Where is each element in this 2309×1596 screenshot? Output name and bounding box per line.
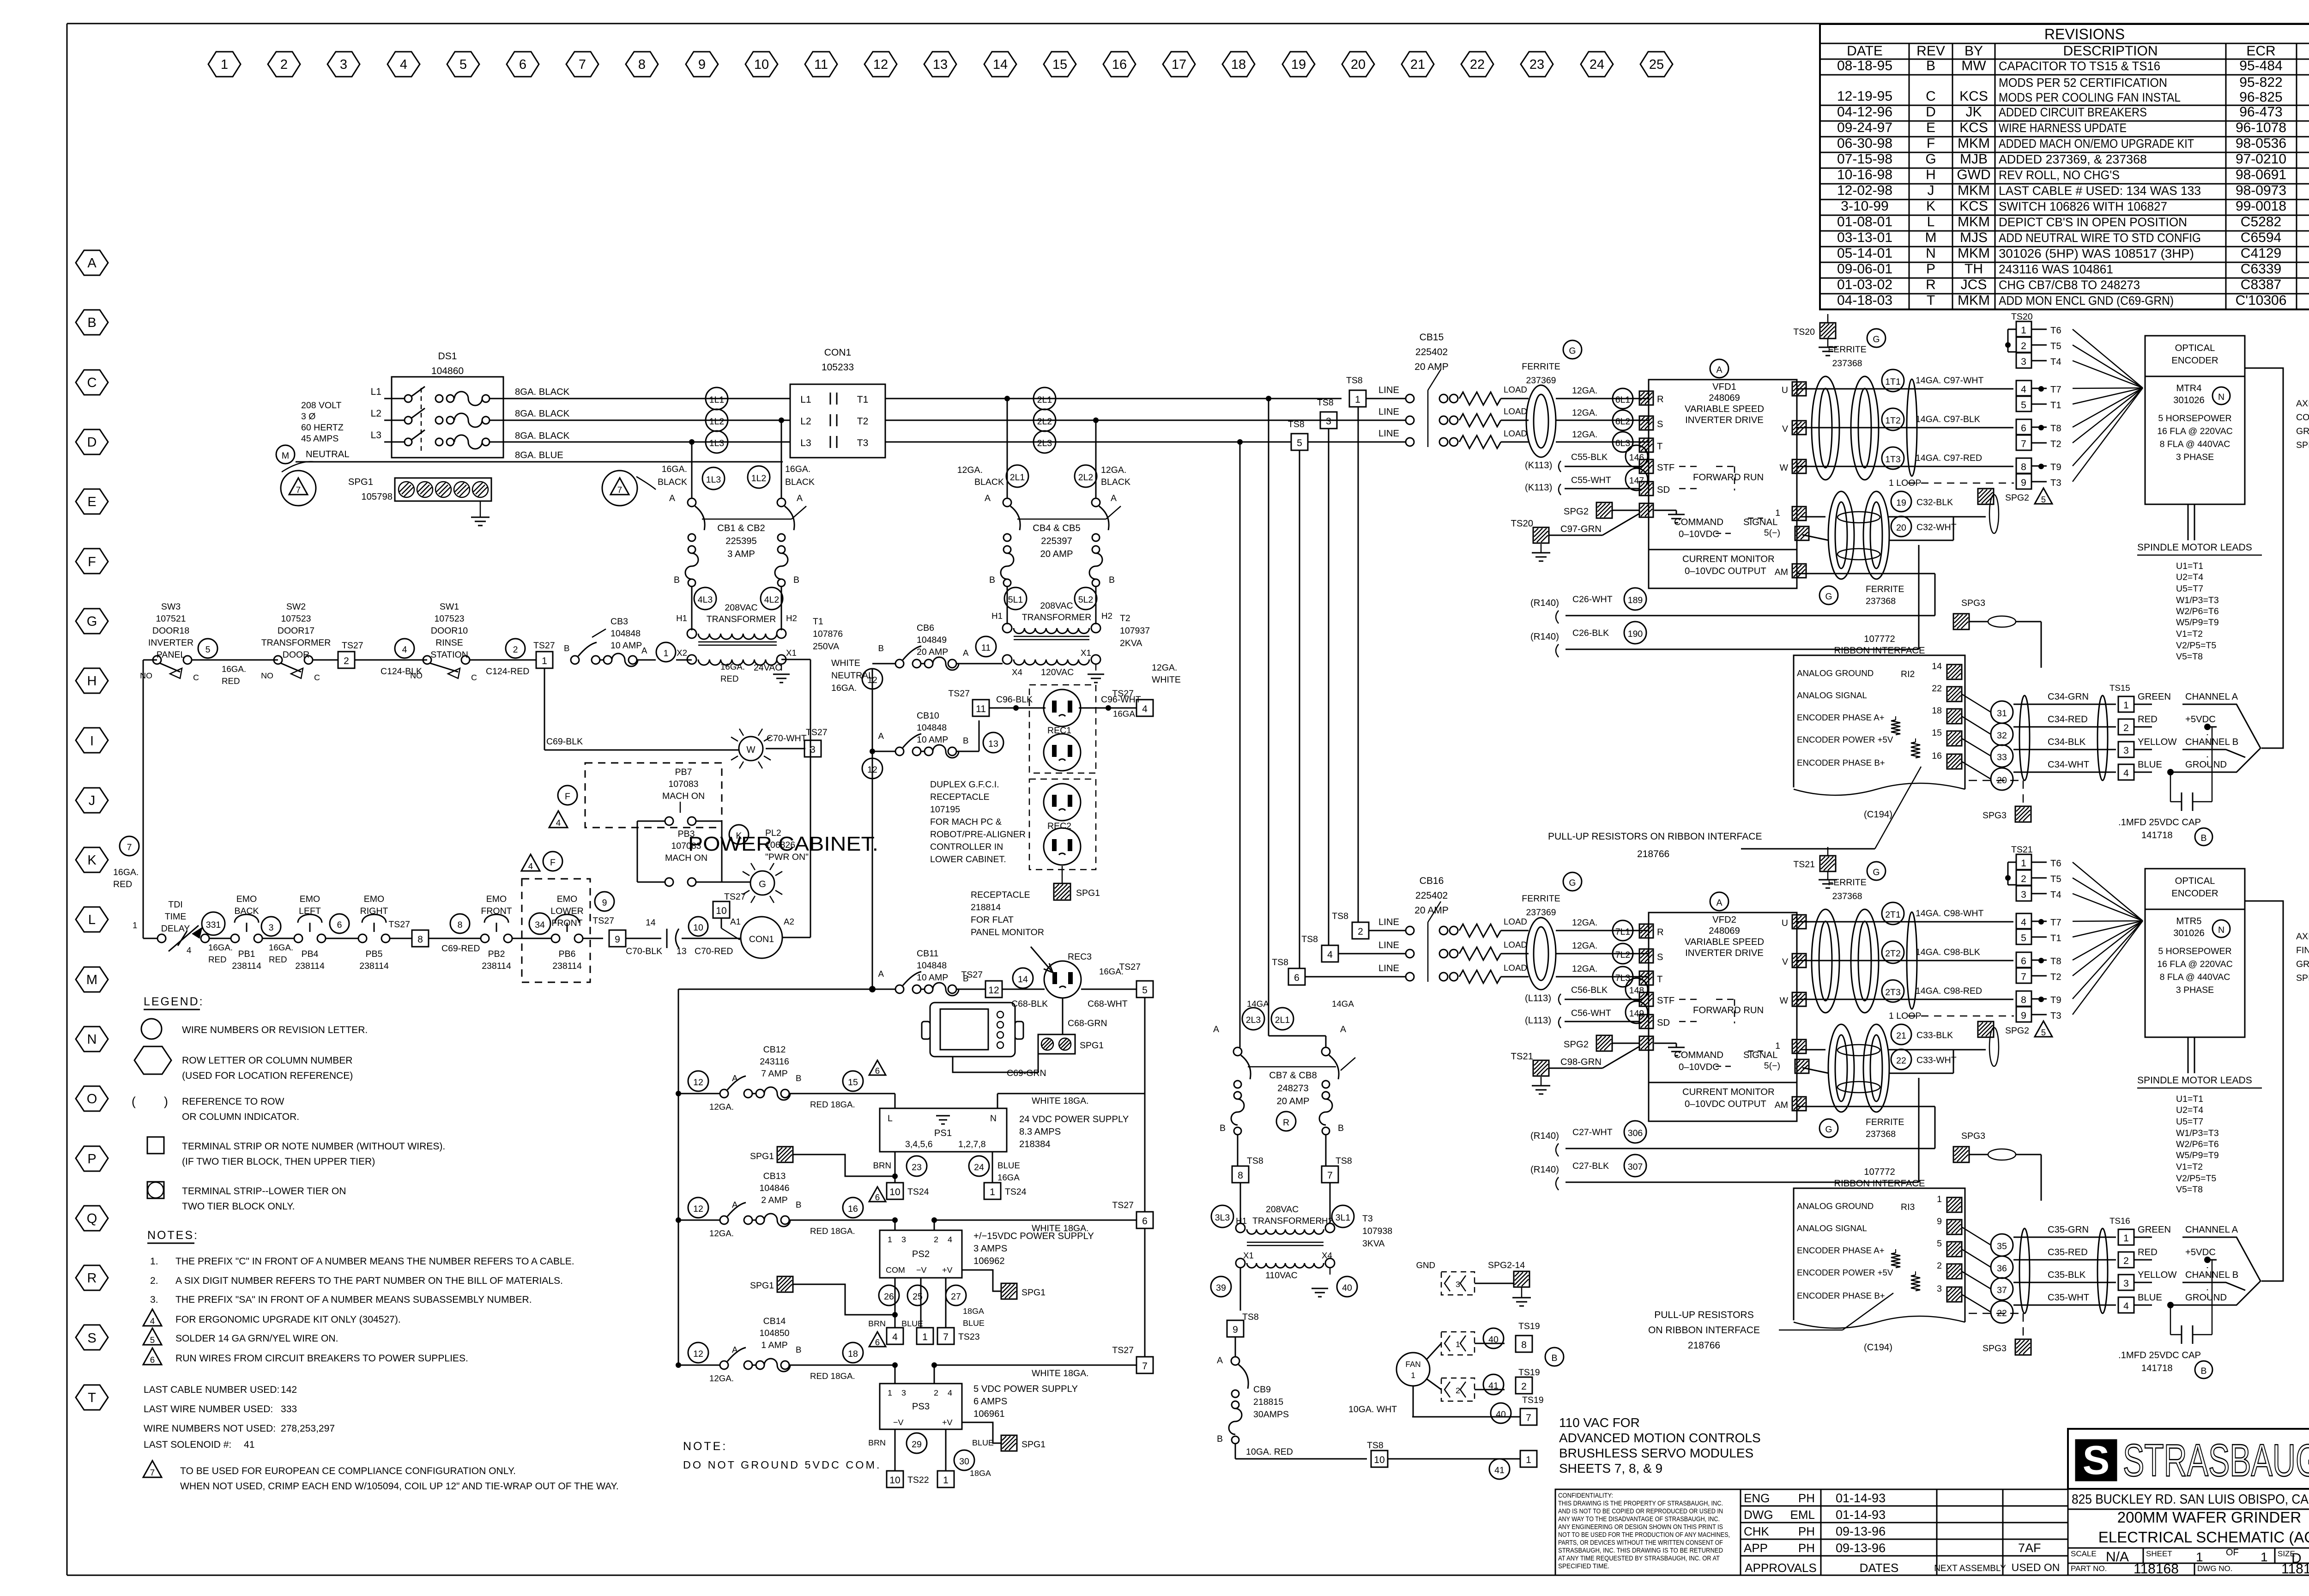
svg-text:STF: STF <box>1657 463 1674 473</box>
svg-text:1T2: 1T2 <box>1885 416 1901 426</box>
svg-text:5: 5 <box>206 645 211 655</box>
svg-text:SPG2: SPG2 <box>2005 1026 2029 1036</box>
svg-text:C: C <box>314 673 320 682</box>
svg-text:13: 13 <box>933 57 948 72</box>
svg-text:2 AMP: 2 AMP <box>761 1195 787 1205</box>
svg-text:1: 1 <box>1456 1340 1460 1349</box>
svg-text:B: B <box>2200 1366 2206 1376</box>
svg-text:16: 16 <box>1112 57 1127 72</box>
svg-text:TRANSFORMER: TRANSFORMER <box>1252 1216 1322 1226</box>
svg-text:RINSE: RINSE <box>435 638 463 648</box>
svg-text:14: 14 <box>1018 974 1028 985</box>
svg-text:104846: 104846 <box>759 1183 789 1193</box>
svg-text:1,2,7,8: 1,2,7,8 <box>958 1139 986 1149</box>
svg-text:2: 2 <box>1521 1381 1527 1392</box>
svg-text:15: 15 <box>1932 728 1942 738</box>
svg-text:TS8: TS8 <box>1301 934 1318 944</box>
svg-text:225402: 225402 <box>1415 890 1448 901</box>
svg-text:1: 1 <box>1775 508 1780 518</box>
svg-text:COARSE: COARSE <box>2296 412 2309 423</box>
svg-text:TS22: TS22 <box>907 1475 929 1485</box>
svg-text:5 HORSEPOWER: 5 HORSEPOWER <box>2158 413 2231 423</box>
svg-text:T3: T3 <box>857 438 869 448</box>
svg-text:SPG1: SPG1 <box>1022 1439 1046 1450</box>
svg-text:190: 190 <box>1628 629 1643 639</box>
svg-text:PS1: PS1 <box>934 1128 952 1138</box>
svg-text:T4: T4 <box>2050 890 2061 900</box>
svg-text:CB4 & CB5: CB4 & CB5 <box>1033 523 1081 533</box>
svg-text:A: A <box>985 493 991 503</box>
svg-text:24 VDC POWER SUPPLY: 24 VDC POWER SUPPLY <box>1019 1114 1129 1124</box>
svg-text:7: 7 <box>127 842 132 852</box>
svg-text:G: G <box>87 614 97 629</box>
svg-text:WHITE 18GA.: WHITE 18GA. <box>1032 1223 1089 1233</box>
svg-text:1L1: 1L1 <box>709 395 725 405</box>
svg-text:C34-GRN: C34-GRN <box>2048 692 2089 702</box>
svg-text:306: 306 <box>1628 1128 1643 1138</box>
svg-text:107523: 107523 <box>434 614 464 624</box>
svg-text:141718: 141718 <box>2141 1363 2173 1373</box>
svg-text:VARIABLE SPEED: VARIABLE SPEED <box>1685 404 1764 414</box>
svg-text:L: L <box>88 913 96 927</box>
svg-text:8 FLA @ 440VAC: 8 FLA @ 440VAC <box>2160 439 2230 449</box>
svg-text:T: T <box>1657 974 1662 985</box>
svg-text:A: A <box>87 256 97 271</box>
svg-text:C27-WHT: C27-WHT <box>1572 1127 1613 1137</box>
svg-text:2: 2 <box>1937 1261 1942 1271</box>
svg-text:250VA: 250VA <box>813 641 839 652</box>
svg-text:AND IS NOT TO BE COPIED OR REP: AND IS NOT TO BE COPIED OR REPRODUCED OR… <box>1558 1508 1723 1515</box>
svg-text:301026 (5HP) WAS 108517 (3HP): 301026 (5HP) WAS 108517 (3HP) <box>1999 247 2194 260</box>
svg-text:DEPICT CB'S IN OPEN POSITION: DEPICT CB'S IN OPEN POSITION <box>1999 215 2187 229</box>
svg-text:34: 34 <box>535 920 545 930</box>
svg-text:A: A <box>669 493 675 503</box>
svg-text:01-14-93: 01-14-93 <box>1836 1508 1886 1522</box>
svg-text:C68-GRN: C68-GRN <box>1068 1018 1107 1028</box>
svg-text:TS27: TS27 <box>961 970 983 980</box>
svg-text:C35-GRN: C35-GRN <box>2048 1225 2089 1235</box>
svg-text:+V: +V <box>942 1265 952 1275</box>
svg-text:01-08-01: 01-08-01 <box>1837 214 1892 230</box>
svg-text:4: 4 <box>400 57 407 72</box>
svg-text:TS8: TS8 <box>1288 419 1305 429</box>
svg-text:14GA. C97-WHT: 14GA. C97-WHT <box>1916 375 1983 386</box>
svg-text:218766: 218766 <box>1688 1340 1720 1351</box>
svg-text:C35-BLK: C35-BLK <box>2048 1270 2086 1280</box>
svg-text:CHK: CHK <box>1744 1524 1770 1538</box>
svg-text:NO: NO <box>261 671 273 680</box>
svg-text:R: R <box>1657 394 1664 405</box>
svg-text:12GA.: 12GA. <box>1572 429 1597 440</box>
svg-text:09-06-01: 09-06-01 <box>1837 261 1892 277</box>
svg-text:J: J <box>1928 183 1934 198</box>
svg-text:ENCODER PHASE A+: ENCODER PHASE A+ <box>1797 713 1885 722</box>
svg-text:6: 6 <box>1142 1216 1148 1227</box>
svg-text:RED 18GA.: RED 18GA. <box>810 1226 855 1236</box>
svg-text:7L2: 7L2 <box>1615 950 1631 960</box>
svg-text:12: 12 <box>867 765 877 775</box>
svg-text:T2: T2 <box>2050 972 2061 982</box>
svg-text:5: 5 <box>1937 1239 1942 1249</box>
svg-text:NOTES:: NOTES: <box>147 1229 199 1242</box>
svg-text:1: 1 <box>888 1388 892 1397</box>
svg-text:278,253,297: 278,253,297 <box>281 1423 335 1434</box>
svg-text:PANEL MONITOR: PANEL MONITOR <box>971 927 1044 937</box>
svg-text:SPG2: SPG2 <box>1564 507 1589 517</box>
svg-text:ANALOG GROUND: ANALOG GROUND <box>1797 668 1874 678</box>
svg-text:20: 20 <box>1351 57 1366 72</box>
svg-text:1: 1 <box>990 1187 995 1197</box>
svg-text:6L2: 6L2 <box>1615 417 1631 427</box>
svg-text:1: 1 <box>1355 394 1360 405</box>
svg-text:26: 26 <box>884 1292 894 1302</box>
svg-text:12GA.: 12GA. <box>1572 408 1597 418</box>
svg-text:40: 40 <box>1496 1409 1506 1420</box>
svg-text:G: G <box>759 879 766 889</box>
svg-text:T3: T3 <box>1362 1214 1373 1224</box>
svg-text:GROUND: GROUND <box>2185 1293 2227 1303</box>
svg-text:TS27: TS27 <box>724 892 746 902</box>
svg-text:S: S <box>2083 1437 2110 1483</box>
svg-text:GRIND: GRIND <box>2296 426 2309 436</box>
svg-text:TIME: TIME <box>165 912 187 922</box>
svg-text:TS20: TS20 <box>2011 312 2033 322</box>
svg-text:TS8: TS8 <box>1336 1156 1352 1166</box>
svg-text:ADVANCED MOTION CONTROLS: ADVANCED MOTION CONTROLS <box>1559 1431 1761 1445</box>
svg-text:TERMINAL STRIP--LOWER TIER ON: TERMINAL STRIP--LOWER TIER ON <box>182 1186 346 1197</box>
svg-text:21: 21 <box>1896 1031 1906 1041</box>
svg-text:C97-GRN: C97-GRN <box>1560 524 1602 534</box>
svg-text:(K113): (K113) <box>1525 460 1552 471</box>
svg-text:KCS: KCS <box>1959 89 1988 104</box>
svg-text:CHANNEL A: CHANNEL A <box>2185 692 2238 702</box>
svg-text:R: R <box>1926 277 1936 292</box>
svg-text:OPTICAL: OPTICAL <box>2175 343 2215 353</box>
svg-text:5: 5 <box>2041 1028 2046 1037</box>
svg-text:ENCODER POWER +5V: ENCODER POWER +5V <box>1797 1268 1893 1277</box>
svg-text:09-13-96: 09-13-96 <box>1836 1524 1886 1538</box>
svg-text:CURRENT MONITOR: CURRENT MONITOR <box>1682 1087 1775 1097</box>
svg-text:RED: RED <box>208 955 227 964</box>
svg-text:9: 9 <box>1233 1324 1238 1335</box>
svg-text:SPG3: SPG3 <box>1961 1131 1985 1141</box>
svg-text:YELLOW: YELLOW <box>2138 737 2177 747</box>
svg-text:16 FLA @ 220VAC: 16 FLA @ 220VAC <box>2157 959 2233 969</box>
svg-text:18GA: 18GA <box>963 1306 984 1316</box>
svg-text:C68-BLK: C68-BLK <box>1011 999 1048 1009</box>
svg-text:146: 146 <box>1629 453 1644 463</box>
svg-text:T2: T2 <box>857 416 869 427</box>
svg-text:A: A <box>878 969 884 979</box>
svg-text:B: B <box>87 315 96 330</box>
svg-text:PB4: PB4 <box>302 949 319 959</box>
svg-text:7: 7 <box>296 485 301 495</box>
svg-text:10-16-98: 10-16-98 <box>1837 167 1892 182</box>
svg-text:B: B <box>989 575 995 585</box>
svg-text:21: 21 <box>1410 57 1425 72</box>
svg-text:1 AMP: 1 AMP <box>761 1340 787 1350</box>
svg-text:237368: 237368 <box>1866 1129 1896 1139</box>
svg-text:20 AMP: 20 AMP <box>1277 1096 1310 1106</box>
svg-text:8GA. BLACK: 8GA. BLACK <box>515 409 570 419</box>
svg-text:B: B <box>564 643 569 653</box>
svg-text:AXIS 5: AXIS 5 <box>2296 931 2309 942</box>
svg-text:8GA. BLACK: 8GA. BLACK <box>515 431 570 441</box>
svg-text:WHITE: WHITE <box>1152 675 1181 685</box>
svg-text:APP: APP <box>1744 1541 1768 1555</box>
svg-text:SPG3: SPG3 <box>1983 810 2007 821</box>
svg-text:2: 2 <box>2123 723 2129 733</box>
svg-text:1L2: 1L2 <box>709 417 725 427</box>
svg-text:0–10VDC: 0–10VDC <box>1679 1062 1719 1072</box>
svg-text:FERRITE: FERRITE <box>1828 345 1866 355</box>
svg-text:RED: RED <box>2138 1247 2158 1257</box>
svg-text:X1: X1 <box>1081 648 1091 658</box>
svg-text:5 VDC POWER SUPPLY: 5 VDC POWER SUPPLY <box>973 1384 1078 1394</box>
svg-text:M: M <box>1925 230 1937 245</box>
svg-text:DOOR17: DOOR17 <box>278 626 314 636</box>
svg-text:C56-BLK: C56-BLK <box>1571 985 1608 995</box>
svg-text:1: 1 <box>943 1475 949 1486</box>
svg-text:TS8: TS8 <box>1317 398 1334 408</box>
svg-text:7L1: 7L1 <box>1615 927 1631 937</box>
svg-text:DUPLEX G.F.C.I.: DUPLEX G.F.C.I. <box>930 780 999 790</box>
svg-text:1: 1 <box>1937 1194 1942 1204</box>
svg-text:TRANSFORMER: TRANSFORMER <box>707 614 776 624</box>
svg-text:31: 31 <box>1997 708 2007 719</box>
svg-text:1: 1 <box>664 648 669 659</box>
svg-text:218766: 218766 <box>1637 849 1669 859</box>
svg-text:35: 35 <box>1997 1241 2007 1251</box>
svg-text:T8: T8 <box>2050 956 2061 967</box>
svg-text:14GA: 14GA <box>1332 999 1354 1009</box>
svg-text:SPINDLE: SPINDLE <box>2296 973 2309 983</box>
svg-text:7AF: 7AF <box>2018 1541 2041 1555</box>
svg-text:POWER CABINET.: POWER CABINET. <box>688 833 878 855</box>
svg-text:B: B <box>796 1073 801 1083</box>
svg-text:7: 7 <box>579 57 586 72</box>
svg-text:R: R <box>1657 927 1664 937</box>
svg-text:U: U <box>1782 918 1788 928</box>
svg-text:110 VAC FOR: 110 VAC FOR <box>1559 1415 1640 1430</box>
svg-text:SHEETS 7, 8, & 9: SHEETS 7, 8, & 9 <box>1559 1461 1662 1475</box>
svg-text:A: A <box>641 646 647 655</box>
svg-text:SWITCH 106826 WITH 106827: SWITCH 106826 WITH 106827 <box>1999 199 2167 213</box>
svg-text:CB1 & CB2: CB1 & CB2 <box>717 523 765 533</box>
svg-text:INVERTER DRIVE: INVERTER DRIVE <box>1685 948 1764 958</box>
svg-text:TS27: TS27 <box>1112 1345 1134 1355</box>
svg-text:LAST SOLENOID #:: LAST SOLENOID #: <box>144 1439 231 1450</box>
svg-text:BLUE: BLUE <box>972 1438 994 1447</box>
svg-text:CON1: CON1 <box>824 347 851 358</box>
svg-text:TS19: TS19 <box>1518 1367 1540 1378</box>
svg-text:2L2: 2L2 <box>1078 472 1094 483</box>
svg-text:307: 307 <box>1628 1162 1643 1172</box>
svg-text:LEFT: LEFT <box>299 906 321 916</box>
svg-text:8: 8 <box>2021 462 2026 472</box>
svg-text:PART NO.: PART NO. <box>2071 1564 2107 1573</box>
svg-text:10: 10 <box>889 1475 900 1486</box>
svg-text:X1: X1 <box>786 648 797 658</box>
svg-text:TS27: TS27 <box>948 689 970 699</box>
svg-text:CHANNEL A: CHANNEL A <box>2185 1225 2238 1235</box>
svg-text:237369: 237369 <box>1526 375 1556 386</box>
svg-text:98-0536: 98-0536 <box>2236 136 2286 151</box>
svg-text:SIGNAL: SIGNAL <box>1743 517 1777 527</box>
svg-text:Q: Q <box>87 1211 97 1226</box>
svg-text:RIBBON INTERFACE: RIBBON INTERFACE <box>1834 1179 1925 1189</box>
svg-text:24: 24 <box>1590 57 1604 72</box>
svg-text:238114: 238114 <box>295 961 325 971</box>
svg-text:B: B <box>1217 1434 1223 1444</box>
svg-text:225397: 225397 <box>1041 536 1072 546</box>
svg-text:BACK: BACK <box>234 906 259 916</box>
svg-text:T6: T6 <box>2050 326 2061 336</box>
svg-text:1 LOOP: 1 LOOP <box>1889 478 1921 488</box>
svg-text:BRN: BRN <box>873 1161 892 1170</box>
svg-text:11: 11 <box>981 643 991 653</box>
svg-text:218384: 218384 <box>1019 1139 1051 1149</box>
svg-text:BRN: BRN <box>868 1319 886 1328</box>
svg-text:STRASBAUGH, INC. THIS DRAWING: STRASBAUGH, INC. THIS DRAWING IS TO BE R… <box>1558 1547 1723 1554</box>
svg-text:16: 16 <box>1932 751 1942 761</box>
svg-text:TS16: TS16 <box>2110 1216 2130 1226</box>
svg-text:B: B <box>1109 575 1115 585</box>
svg-text:T: T <box>1657 441 1662 452</box>
svg-text:(C194): (C194) <box>1864 810 1892 820</box>
svg-text:16GA.: 16GA. <box>113 867 139 877</box>
svg-text:8: 8 <box>417 934 423 945</box>
svg-text:C27-BLK: C27-BLK <box>1572 1161 1609 1171</box>
svg-text:MODS PER COOLING FAN INSTAL: MODS PER COOLING FAN INSTAL <box>1999 91 2181 104</box>
svg-text:10 AMP: 10 AMP <box>917 735 948 745</box>
svg-text:SPG1: SPG1 <box>750 1151 774 1161</box>
svg-text:U2=T4: U2=T4 <box>2176 572 2203 582</box>
svg-text:SD: SD <box>1657 1018 1670 1028</box>
svg-text:EMO: EMO <box>486 894 507 904</box>
svg-text:2: 2 <box>2021 341 2026 351</box>
svg-text:12: 12 <box>873 57 888 72</box>
svg-text:16GA.: 16GA. <box>1113 709 1137 719</box>
svg-text:12GA.: 12GA. <box>1572 964 1597 974</box>
svg-text:10: 10 <box>693 923 703 933</box>
svg-text:15: 15 <box>848 1077 858 1088</box>
svg-text:107523: 107523 <box>281 614 311 624</box>
svg-text:C: C <box>471 673 477 682</box>
svg-text:20 AMP: 20 AMP <box>1414 905 1449 916</box>
svg-text:20 AMP: 20 AMP <box>917 647 948 657</box>
svg-text:W1/P3=T3: W1/P3=T3 <box>2176 1128 2219 1138</box>
svg-text:9: 9 <box>602 898 607 908</box>
svg-text:SPG1: SPG1 <box>1080 1040 1104 1051</box>
svg-text:AXIS 4: AXIS 4 <box>2296 399 2309 409</box>
svg-text:1: 1 <box>922 1332 928 1342</box>
svg-text:9: 9 <box>2021 478 2026 488</box>
svg-text:T1: T1 <box>857 394 869 405</box>
svg-text:A: A <box>797 493 803 503</box>
svg-text:H: H <box>87 674 97 689</box>
svg-text:B: B <box>793 575 799 585</box>
svg-text:107083: 107083 <box>668 779 698 789</box>
svg-text:FORWARD RUN: FORWARD RUN <box>1693 472 1764 483</box>
svg-text:B: B <box>796 1345 801 1354</box>
svg-text:FOR ERGONOMIC UPGRADE KIT ONLY: FOR ERGONOMIC UPGRADE KIT ONLY (304527). <box>175 1314 401 1325</box>
svg-text:142: 142 <box>281 1384 297 1395</box>
svg-text:6: 6 <box>875 1337 880 1347</box>
svg-text:FERRITE: FERRITE <box>1828 877 1866 888</box>
svg-text:T4: T4 <box>2050 357 2061 367</box>
svg-text:T9: T9 <box>2050 462 2061 472</box>
svg-text:6L3: 6L3 <box>1615 438 1631 448</box>
svg-text:225402: 225402 <box>1415 347 1448 357</box>
svg-text:10 AMP: 10 AMP <box>917 973 948 983</box>
svg-text:12: 12 <box>693 1204 703 1214</box>
svg-text:W: W <box>1780 463 1789 473</box>
svg-text:CB13: CB13 <box>763 1171 786 1181</box>
svg-text:V5=T8: V5=T8 <box>2176 652 2203 662</box>
svg-text:B: B <box>963 736 968 745</box>
svg-text:12GA.: 12GA. <box>1572 918 1597 928</box>
svg-text:V1=T2: V1=T2 <box>2176 1162 2203 1172</box>
svg-text:+V: +V <box>942 1418 952 1427</box>
svg-text:ENCODER: ENCODER <box>2171 889 2218 899</box>
svg-text:T5: T5 <box>2050 874 2061 884</box>
svg-text:12GA.: 12GA. <box>709 1228 734 1238</box>
svg-text:BLACK: BLACK <box>974 477 1004 487</box>
svg-text:PARTS, OR DEVICES WITHOUT THE: PARTS, OR DEVICES WITHOUT THE WRITTEN CO… <box>1558 1539 1723 1547</box>
svg-text:FERRITE: FERRITE <box>1866 584 1904 594</box>
svg-text:05-14-01: 05-14-01 <box>1837 246 1892 261</box>
svg-text:CB10: CB10 <box>917 711 939 721</box>
svg-text:RECEPTACLE: RECEPTACLE <box>971 890 1030 900</box>
svg-text:N/A: N/A <box>2106 1549 2129 1565</box>
svg-text:3L3: 3L3 <box>1215 1213 1230 1223</box>
svg-text:10: 10 <box>889 1187 900 1197</box>
svg-text:825 BUCKLEY RD. SAN LUIS OBISP: 825 BUCKLEY RD. SAN LUIS OBISPO, CA 9340… <box>2072 1492 2309 1507</box>
svg-text:W2/P6=T6: W2/P6=T6 <box>2176 1139 2219 1149</box>
svg-text:H: H <box>1926 167 1936 182</box>
svg-text:99-0018: 99-0018 <box>2236 199 2286 214</box>
svg-text:04-18-03: 04-18-03 <box>1837 293 1892 308</box>
svg-text:248273: 248273 <box>1277 1083 1309 1094</box>
svg-text:8.3 AMPS: 8.3 AMPS <box>1019 1127 1061 1137</box>
svg-text:5(−): 5(−) <box>1764 528 1780 538</box>
svg-text:12GA.: 12GA. <box>1101 465 1126 475</box>
svg-text:G: G <box>1873 334 1880 345</box>
svg-text:1: 1 <box>2123 700 2129 711</box>
svg-text:5(−): 5(−) <box>1764 1061 1780 1071</box>
svg-text:41: 41 <box>1494 1465 1505 1475</box>
svg-text:SD: SD <box>1657 485 1670 495</box>
svg-text:CB3: CB3 <box>610 617 628 627</box>
svg-text:30: 30 <box>959 1457 969 1467</box>
svg-text:T6: T6 <box>2050 858 2061 869</box>
svg-text:12: 12 <box>988 985 999 996</box>
svg-text:TS27: TS27 <box>342 641 363 651</box>
svg-text:14GA. C98-RED: 14GA. C98-RED <box>1916 986 1982 996</box>
svg-text:12GA.: 12GA. <box>709 1373 734 1383</box>
svg-text:AM: AM <box>1775 1100 1788 1110</box>
svg-text:238114: 238114 <box>359 961 389 971</box>
svg-text:LINE: LINE <box>1378 407 1399 417</box>
svg-text:T: T <box>1927 293 1935 308</box>
svg-text:TS20: TS20 <box>1793 327 1815 337</box>
svg-text:V1=T2: V1=T2 <box>2176 629 2203 639</box>
svg-text:200MM WAFER GRINDER: 200MM WAFER GRINDER <box>2117 1509 2301 1526</box>
svg-text:208VAC: 208VAC <box>1266 1204 1299 1215</box>
svg-text:TS19: TS19 <box>1518 1321 1540 1331</box>
svg-text:11: 11 <box>976 704 986 714</box>
